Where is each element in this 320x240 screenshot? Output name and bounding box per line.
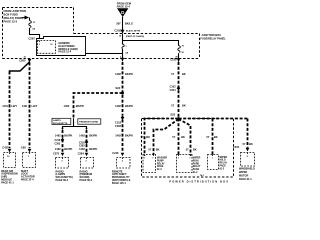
svg-text:(PART OF 14A005): (PART OF 14A005) [126,35,145,38]
svg-text:RELAY: RELAY [157,162,165,165]
label JUNCTION BOX FUSE/RELAY PANEL [200,33,226,41]
fuse panel right dashed edge [199,34,201,58]
wire breaker to lower boundary [122,49,124,62]
svg-text:PAGE 12-3: PAGE 12-3 [4,20,18,24]
svg-text:BK/PK: BK/PK [89,133,97,137]
connector C275 col3 [53,152,69,169]
boundary right edge of top-left box [73,8,75,34]
svg-text:HI/LO: HI/LO [220,160,226,162]
svg-text:RELAY: RELAY [220,162,228,165]
svg-text:BK/PK: BK/PK [125,104,133,108]
svg-text:C267: C267 [28,36,35,40]
svg-text:1462: 1462 [115,72,121,76]
svg-text:D: D [121,10,124,15]
arrow from label to wire [22,16,30,20]
wire GEM output to middle wire [86,53,123,55]
svg-text:PAGE: PAGE [193,168,200,171]
svg-text:BOX FUSE/: BOX FUSE/ [4,13,19,17]
svg-text:91-2: 91-2 [157,169,162,171]
connector C250 at boundary right [170,56,180,61]
wire radio cassette branch [62,130,64,152]
svg-text:91-2: 91-2 [193,172,198,174]
wire drop to hi/lo relay [212,119,214,156]
svg-text:PAGE 68-4: PAGE 68-4 [56,179,69,182]
wire left column 1 [9,72,11,149]
text radio lamps w/cassette [56,170,73,182]
svg-text:C204: C204 [170,89,177,92]
svg-text:WIPER: WIPER [193,158,201,160]
svg-text:PUMP: PUMP [157,160,164,162]
split arrowheads [61,128,63,130]
wire right breaker to boundary [178,53,180,62]
wire middle down from S22 [122,62,124,116]
wire through option gap and split brace [73,118,75,126]
svg-text:1: 1 [126,46,128,48]
svg-text:57: 57 [206,135,209,139]
text windshield wiper motor [239,168,255,181]
connector C234 wiper motor [233,145,255,166]
svg-text:3: 3 [61,161,63,163]
svg-text:C250: C250 [170,58,177,62]
svg-text:1: 1 [144,158,145,160]
svg-text:F1: F1 [33,22,36,24]
svg-text:C202: C202 [114,28,121,32]
connector C202 boundary line [74,33,200,35]
svg-text:RELAY: RELAY [193,165,201,168]
connector C246 col5 [112,151,130,168]
svg-text:10: 10 [7,156,10,158]
svg-text:1462: 1462 [64,104,70,108]
svg-text:1462: 1462 [79,147,85,151]
junction box / interior boundary top edge [3,7,74,9]
connector C68 col2 [21,146,36,168]
svg-text:297: 297 [116,21,121,25]
connector C202 [114,28,144,38]
svg-text:POWER DISTRIBUTION BOX: POWER DISTRIBUTION BOX [169,179,229,183]
svg-text:BK: BK [182,72,186,76]
wire to windshield wiper motor [247,119,249,148]
svg-text:57: 57 [148,148,151,152]
text radio premium sound [80,170,93,182]
wiper hi/lo relay box [208,155,219,170]
svg-text:S23: S23 [170,113,175,117]
wire 297 BK/LG [122,17,124,33]
wiper run/park relay box [177,155,193,173]
svg-text:FUSE/RELAY PANEL: FUSE/RELAY PANEL [200,36,226,40]
circuit breaker middle [122,44,124,48]
svg-text:PAGE: PAGE [157,165,164,168]
svg-text:C280: C280 [19,58,26,62]
svg-text:BK: BK [181,135,185,139]
wire left column 2 [29,63,31,149]
svg-text:30: 30 [182,52,185,54]
svg-text:1461: 1461 [22,104,28,108]
lower boundary line [3,58,200,60]
wire from arrow down to circuit breaker [29,18,31,21]
branch wire to fuse panel right [123,41,179,46]
wire radio premium branch [86,130,88,152]
svg-text:57: 57 [186,148,189,152]
connector C437 col1 [2,146,15,168]
boundary left edge [2,8,4,59]
svg-text:C275: C275 [53,152,60,156]
inline connector diamond on RAP wire [115,115,124,127]
svg-text:C234: C234 [233,145,240,149]
svg-text:PAGE 12-4: PAGE 12-4 [117,5,131,9]
svg-text:10: 10 [50,44,53,46]
wire C202 down [122,34,124,45]
svg-text:BK: BK [214,135,218,139]
svg-text:14: 14 [119,35,122,38]
inline connector diamond on premium wire [79,140,88,148]
svg-text:1462: 1462 [55,133,61,137]
svg-text:PAGE 68-4: PAGE 68-4 [80,179,93,182]
svg-text:1: 1 [152,158,153,160]
text washer pump relay [157,157,167,172]
svg-text:5A: 5A [126,51,129,54]
wire branch S22 to left [74,93,123,119]
inline connector diamond C102/C204 [170,86,181,92]
svg-text:BK/PK: BK/PK [89,147,97,151]
svg-text:1: 1 [178,158,179,160]
splice S22 [115,86,124,95]
svg-text:FROM JUNCTION: FROM JUNCTION [4,9,26,13]
svg-text:BK: BK [182,104,186,108]
svg-text:91-2: 91-2 [220,168,225,170]
svg-text:BLACK 48 PIN: BLACK 48 PIN [126,30,141,33]
svg-text:(RELAY) PANEL: (RELAY) PANEL [4,16,25,20]
GEM text [58,41,77,54]
svg-text:PAGE: PAGE [220,165,227,168]
connector C267 pin box [38,41,56,54]
text shift lock actuator [21,170,35,182]
svg-text:PAGE 37-4: PAGE 37-4 [21,179,34,182]
triangle connector D from GEM [117,8,128,17]
svg-text:S22: S22 [115,86,120,90]
svg-text:3: 3 [85,161,87,163]
svg-text:PAGE 91-1: PAGE 91-1 [239,178,252,181]
splice S23 [170,113,180,120]
svg-text:1462: 1462 [115,133,121,137]
connector C284 col4 [78,152,94,169]
wire RAP branch [122,120,124,152]
svg-text:57: 57 [243,142,246,146]
svg-text:RUN /: RUN / [193,160,200,162]
svg-text:BK/PK: BK/PK [64,147,72,151]
svg-text:PAGE 41-1: PAGE 41-1 [1,181,14,184]
svg-text:BK/PK: BK/PK [76,104,84,108]
wire splice diagonal to run/park relay pin2 [179,119,191,156]
label FROM JUNCTION BOX FUSE/RELAY PANEL [4,9,26,24]
svg-text:1: 1 [189,158,190,160]
text rear air suspension module [1,170,18,185]
svg-text:F1: F1 [182,46,185,48]
option box LAMPS W/CASSETTE [52,118,71,125]
label FROM GEM [117,2,131,9]
svg-text:C68: C68 [21,146,26,150]
svg-text:BK/PK: BK/PK [125,133,133,137]
circuit breaker in junction box (left) [29,21,32,28]
text wiper run/park relay [193,158,201,175]
GEM module box U1 [37,37,86,56]
wire splice straight down run/park relay [178,119,180,156]
wire right down to splice [178,62,180,119]
svg-text:BK: BK [156,148,160,152]
wire from breaker to GEM pin [30,28,40,39]
svg-text:2: 2 [247,156,249,158]
svg-text:6A: 6A [32,28,35,31]
svg-text:BK/PK: BK/PK [64,133,72,137]
svg-text:BK/LG: BK/LG [125,21,133,25]
svg-text:LAMPS: LAMPS [53,119,61,122]
option box PREMIUM SOUND [78,119,101,124]
svg-text:JUNCTION BOX: JUNCTION BOX [201,33,221,37]
wire splice to washer relay pin1 via box corner [145,119,179,156]
svg-text:C284: C284 [78,152,85,156]
svg-text:57: 57 [171,104,174,108]
svg-text:LB/Y: LB/Y [32,104,38,108]
svg-text:PREMIUM SOUND: PREMIUM SOUND [79,122,98,124]
connector arrow at lower boundary middle [120,57,124,62]
text wiper hi/lo relay [220,157,228,171]
svg-text:1: 1 [212,158,213,160]
svg-text:1462: 1462 [79,133,85,137]
svg-text:BK: BK [193,148,197,152]
svg-text:57: 57 [141,135,144,139]
svg-text:BK/PK: BK/PK [125,72,133,76]
power distribution box outline [142,119,234,178]
svg-text:WIPER: WIPER [220,157,228,159]
svg-text:57: 57 [172,135,175,139]
wire diagonal split left [10,62,30,72]
svg-text:PARK: PARK [193,162,200,165]
svg-text:14-1: 14-1 [200,174,205,177]
svg-text:1: 1 [39,44,41,46]
wire splice diagonal to washer relay pin2 [154,119,179,155]
svg-text:BK: BK [146,135,150,139]
circuit breaker right (fuse panel) [178,46,181,53]
svg-text:10: 10 [23,56,26,58]
svg-text:BK: BK [249,142,253,146]
svg-text:W/CASSETTE: W/CASSETTE [53,122,68,125]
svg-text:1: 1 [28,156,30,158]
svg-text:PAGE 12-4: PAGE 12-4 [58,50,71,54]
connector C280 at left boundary [19,56,31,62]
text remote anti-theft RAP module [112,170,131,185]
svg-text:1462: 1462 [115,104,121,108]
svg-text:C246: C246 [112,151,119,155]
svg-text:1462: 1462 [55,147,61,151]
svg-text:C283: C283 [54,143,60,146]
inline connector diamond on cassette wire [54,138,64,146]
washer pump relay box [143,155,156,173]
svg-text:LB/Y: LB/Y [11,104,17,108]
svg-text:57: 57 [171,72,174,76]
wire splice right along top to hi/lo relay [179,118,248,120]
svg-text:C282: C282 [115,125,122,128]
svg-text:PAGE 105-1: PAGE 105-1 [112,182,127,185]
svg-text:2: 2 [122,161,124,163]
svg-text:WASHER: WASHER [157,157,167,160]
svg-text:1461: 1461 [2,104,8,108]
